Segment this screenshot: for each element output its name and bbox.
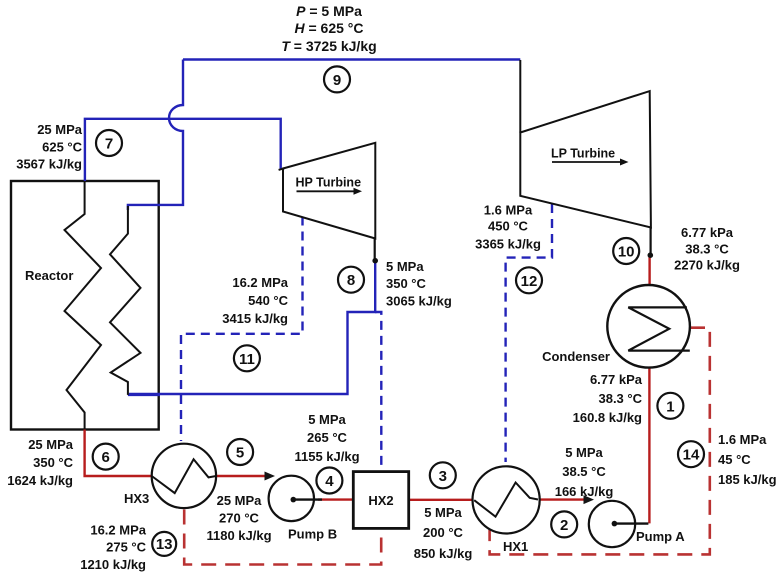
node circle 2 — [551, 511, 577, 537]
svg-text:450 °C: 450 °C — [488, 219, 529, 234]
node circle 6 — [93, 444, 119, 470]
svg-text:7: 7 — [105, 136, 113, 153]
svg-text:2: 2 — [560, 517, 568, 534]
svg-text:38.3 °C: 38.3 °C — [685, 242, 729, 257]
node: LP turbine exit junction dot — [648, 252, 654, 258]
svg-text:25 MPa: 25 MPa — [217, 493, 263, 508]
svg-text:1624 kJ/kg: 1624 kJ/kg — [7, 473, 73, 488]
svg-text:HX3: HX3 — [124, 491, 149, 506]
svg-text:4: 4 — [325, 473, 334, 490]
reactor vessel box — [11, 181, 159, 430]
svg-text:LP Turbine: LP Turbine — [551, 147, 615, 161]
wire: blue dashed branch of line 8 to HX2 — [375, 312, 381, 470]
reactor right coil — [110, 206, 141, 395]
svg-text:38.3 °C: 38.3 °C — [598, 391, 642, 406]
node circle 13 — [152, 532, 176, 556]
reactor left coil — [65, 181, 102, 430]
svg-text:2270 kJ/kg: 2270 kJ/kg — [674, 258, 740, 273]
svg-text:200 °C: 200 °C — [423, 525, 464, 540]
wire: red line 3 (HX2 to HX1) — [409, 499, 475, 501]
wire: blue main steam line 7 (reactor left coil top to HP turbine inlet) — [85, 119, 281, 181]
svg-text:5 MPa: 5 MPa — [308, 412, 346, 427]
node circle 10 — [613, 238, 639, 264]
svg-text:3065 kJ/kg: 3065 kJ/kg — [386, 294, 452, 309]
node circle 4 — [316, 468, 342, 494]
svg-text:16.2 MPa: 16.2 MPa — [232, 275, 288, 290]
node circle 5 — [227, 439, 253, 465]
svg-text:HX1: HX1 — [503, 539, 528, 554]
node circle 8 — [338, 267, 364, 293]
svg-text:625 °C: 625 °C — [42, 140, 83, 155]
svg-text:45 °C: 45 °C — [718, 452, 751, 467]
svg-text:6: 6 — [102, 449, 110, 466]
svg-text:13: 13 — [156, 536, 173, 553]
svg-text:16.2 MPa: 16.2 MPa — [90, 523, 146, 538]
wire: blue dashed extraction line 12 (LP turbine to HX1) — [506, 204, 552, 462]
svg-text:Pump A: Pump A — [636, 529, 685, 544]
wire: red line 4 (Pump B to HX2) — [318, 498, 353, 500]
svg-text:1.6 MPa: 1.6 MPa — [484, 203, 533, 218]
wire: red dashed drain line 13 (HX3 bottom to HX2 bottom) — [184, 510, 381, 565]
pump B — [269, 476, 314, 521]
pump A — [589, 501, 635, 547]
wire: blue reheat steam line 9 vertical with hop over line 7 — [128, 60, 183, 211]
svg-text:5 MPa: 5 MPa — [565, 445, 603, 460]
svg-text:T = 3725 kJ/kg: T = 3725 kJ/kg — [281, 38, 376, 54]
svg-text:8: 8 — [347, 272, 355, 289]
svg-text:5 MPa: 5 MPa — [386, 259, 424, 274]
svg-text:1180 kJ/kg: 1180 kJ/kg — [206, 528, 271, 543]
svg-text:166 kJ/kg: 166 kJ/kg — [555, 484, 614, 499]
wire: red line 5 (HX3 to Pump B) with arrow — [216, 475, 266, 477]
svg-text:265 °C: 265 °C — [307, 430, 348, 445]
svg-text:850 kJ/kg: 850 kJ/kg — [414, 546, 473, 561]
wire: black stub LP turbine exit — [649, 227, 651, 254]
node circle 9 — [324, 66, 350, 92]
svg-text:350 °C: 350 °C — [33, 455, 74, 470]
svg-text:9: 9 — [333, 72, 341, 89]
node circle 12 — [516, 267, 542, 293]
svg-text:1.6 MPa: 1.6 MPa — [718, 432, 767, 447]
HP turbine — [283, 143, 375, 239]
node circle 11 — [234, 345, 260, 371]
HX1 heat exchanger — [473, 466, 540, 533]
wire: red line 10 (LP turbine exhaust to condenser) — [648, 256, 650, 285]
HX2 heat exchanger box — [353, 472, 408, 529]
svg-text:3415 kJ/kg: 3415 kJ/kg — [222, 311, 288, 326]
svg-text:10: 10 — [618, 244, 635, 261]
node circle 1 — [657, 393, 683, 419]
wire: black drop from line 9 into LP turbine inlet — [519, 60, 521, 133]
svg-text:3567 kJ/kg: 3567 kJ/kg — [16, 157, 82, 172]
svg-text:350 °C: 350 °C — [386, 276, 427, 291]
wire: red dashed drain line 14 (condenser to HX1 bottom) — [490, 328, 710, 555]
svg-text:P = 5 MPa: P = 5 MPa — [296, 3, 362, 19]
svg-text:185 kJ/kg: 185 kJ/kg — [718, 472, 777, 487]
svg-text:5 MPa: 5 MPa — [424, 505, 462, 520]
LP turbine — [520, 91, 651, 227]
svg-text:Condenser: Condenser — [542, 349, 610, 364]
svg-text:540 °C: 540 °C — [248, 293, 289, 308]
svg-text:25 MPa: 25 MPa — [28, 437, 74, 452]
svg-text:12: 12 — [521, 273, 538, 290]
condenser — [607, 285, 690, 368]
node circle 3 — [430, 462, 456, 488]
svg-text:3365 kJ/kg: 3365 kJ/kg — [475, 237, 541, 252]
svg-text:1: 1 — [666, 398, 674, 415]
svg-text:1155 kJ/kg: 1155 kJ/kg — [294, 449, 359, 464]
svg-text:160.8 kJ/kg: 160.8 kJ/kg — [573, 410, 642, 425]
wire: blue HP turbine exhaust line 8 (solid, to reactor right coil bottom) — [129, 261, 375, 394]
wire: red feedwater line 6 (reactor coil bottom to HX3) — [85, 430, 152, 477]
wire: blue solid stub reactor right coil bottom exit — [128, 394, 160, 396]
svg-text:H = 625 °C: H = 625 °C — [294, 20, 363, 36]
wire: blue dashed extraction line 11 (HP turbine to HX3) — [181, 217, 303, 442]
wire: red line 1 (condenser to Pump A) — [648, 368, 650, 523]
node circle 7 — [96, 130, 122, 156]
svg-text:3: 3 — [439, 468, 447, 485]
svg-text:HP Turbine: HP Turbine — [296, 176, 362, 190]
svg-text:5: 5 — [236, 445, 244, 462]
svg-text:11: 11 — [239, 351, 255, 368]
svg-text:Pump B: Pump B — [288, 527, 337, 542]
svg-text:38.5 °C: 38.5 °C — [562, 464, 606, 479]
svg-text:25 MPa: 25 MPa — [37, 122, 83, 137]
svg-text:6.77 kPa: 6.77 kPa — [590, 372, 643, 387]
svg-text:6.77 kPa: 6.77 kPa — [681, 225, 734, 240]
wire: red line 2 (HX1 to Pump A) with arrow — [538, 498, 586, 500]
node: HP turbine exit junction dot — [372, 258, 378, 264]
svg-text:HX2: HX2 — [368, 493, 393, 508]
svg-text:1210 kJ/kg: 1210 kJ/kg — [80, 557, 146, 572]
wire: black stub HP turbine exit — [374, 239, 376, 259]
svg-text:14: 14 — [683, 447, 700, 464]
node circle 14 — [678, 441, 704, 467]
HX3 heat exchanger — [152, 444, 216, 508]
svg-text:275 °C: 275 °C — [106, 540, 147, 555]
svg-text:270 °C: 270 °C — [219, 511, 260, 526]
wire: blue line 9 top horizontal to LP turbine — [183, 58, 520, 60]
svg-text:Reactor: Reactor — [25, 268, 73, 283]
